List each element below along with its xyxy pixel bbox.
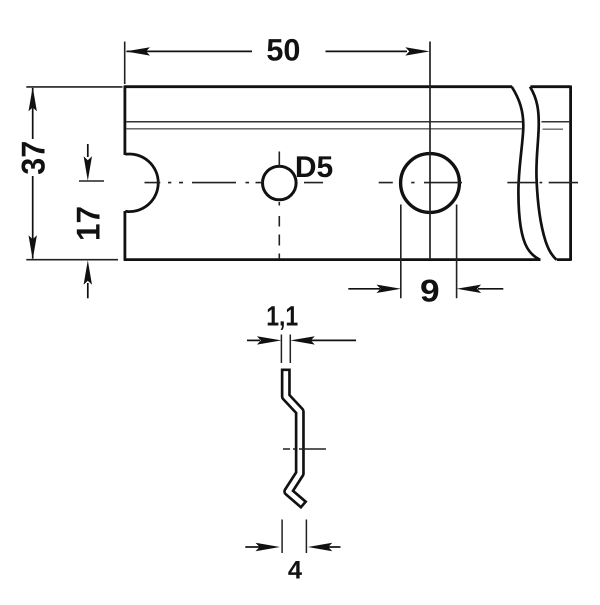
dimension line 50: [127, 50, 408, 52]
arrow 50 right: [405, 47, 430, 55]
extension lines of dim 9 (hole tangents): [401, 205, 457, 299]
hole D5: [263, 166, 297, 200]
vertical extension line through hole 9mm: [429, 42, 431, 260]
hole 9mm: [401, 154, 460, 213]
break line 2: [530, 87, 557, 260]
dimension line 1,1 left: [247, 339, 260, 341]
dimension line 4 right: [328, 546, 341, 548]
clip profile outline (black): [286, 369, 305, 506]
plate bottom edge: [124, 258, 571, 261]
arrow 1,1 right-pointing: [257, 336, 282, 344]
dimension line 17 lower tail: [87, 283, 89, 298]
groove line upper left: [126, 121, 523, 123]
extension lines of dim 37: [26, 87, 122, 260]
clip profile centerline: [283, 448, 326, 450]
break line 1: [512, 87, 540, 260]
dimension line 9 left: [348, 288, 380, 290]
svg-text:4: 4: [288, 557, 303, 585]
extension lines of dim 4: [282, 520, 306, 554]
arrow 17 up: [84, 260, 92, 285]
arrow 50 left: [126, 47, 151, 55]
dimension line 17 upper: [87, 144, 89, 157]
groove line upper right: [542, 121, 571, 123]
dimension line 9 right: [478, 288, 503, 290]
arrow 4 left-pointing: [308, 543, 333, 551]
horizontal centerline: [79, 181, 578, 183]
groove line lower right: [543, 128, 564, 130]
arrow 1,1 left-pointing: [290, 336, 315, 344]
arrow 9 left-pointing: [457, 285, 482, 293]
arrow 17 down: [84, 156, 92, 181]
arrow 9 right-pointing: [377, 285, 402, 293]
svg-text:1,1: 1,1: [266, 301, 298, 332]
dimension line 37: [32, 88, 34, 259]
notch half-circle on left edge: [125, 154, 158, 212]
plate right edge: [569, 86, 572, 261]
vertical centerline of hole D5: [278, 152, 280, 260]
extension lines of dim 1,1: [281, 335, 290, 364]
dimension line 4 left: [245, 546, 261, 548]
svg-text:17: 17: [70, 206, 107, 241]
svg-text:D5: D5: [295, 151, 333, 184]
plate top edge: [124, 85, 571, 88]
svg-text:37: 37: [14, 141, 51, 175]
left extension line of dim 50: [124, 42, 126, 85]
dimension line 1,1 right: [311, 339, 356, 341]
svg-text:9: 9: [420, 273, 440, 309]
arrow 37 down: [29, 235, 37, 260]
plate left edge: [124, 86, 127, 261]
clip profile inner white: [286, 371, 303, 504]
groove line lower left: [126, 128, 522, 130]
arrow 4 right-pointing: [256, 543, 281, 551]
svg-text:50: 50: [266, 33, 300, 68]
arrow 37 up: [29, 87, 37, 112]
